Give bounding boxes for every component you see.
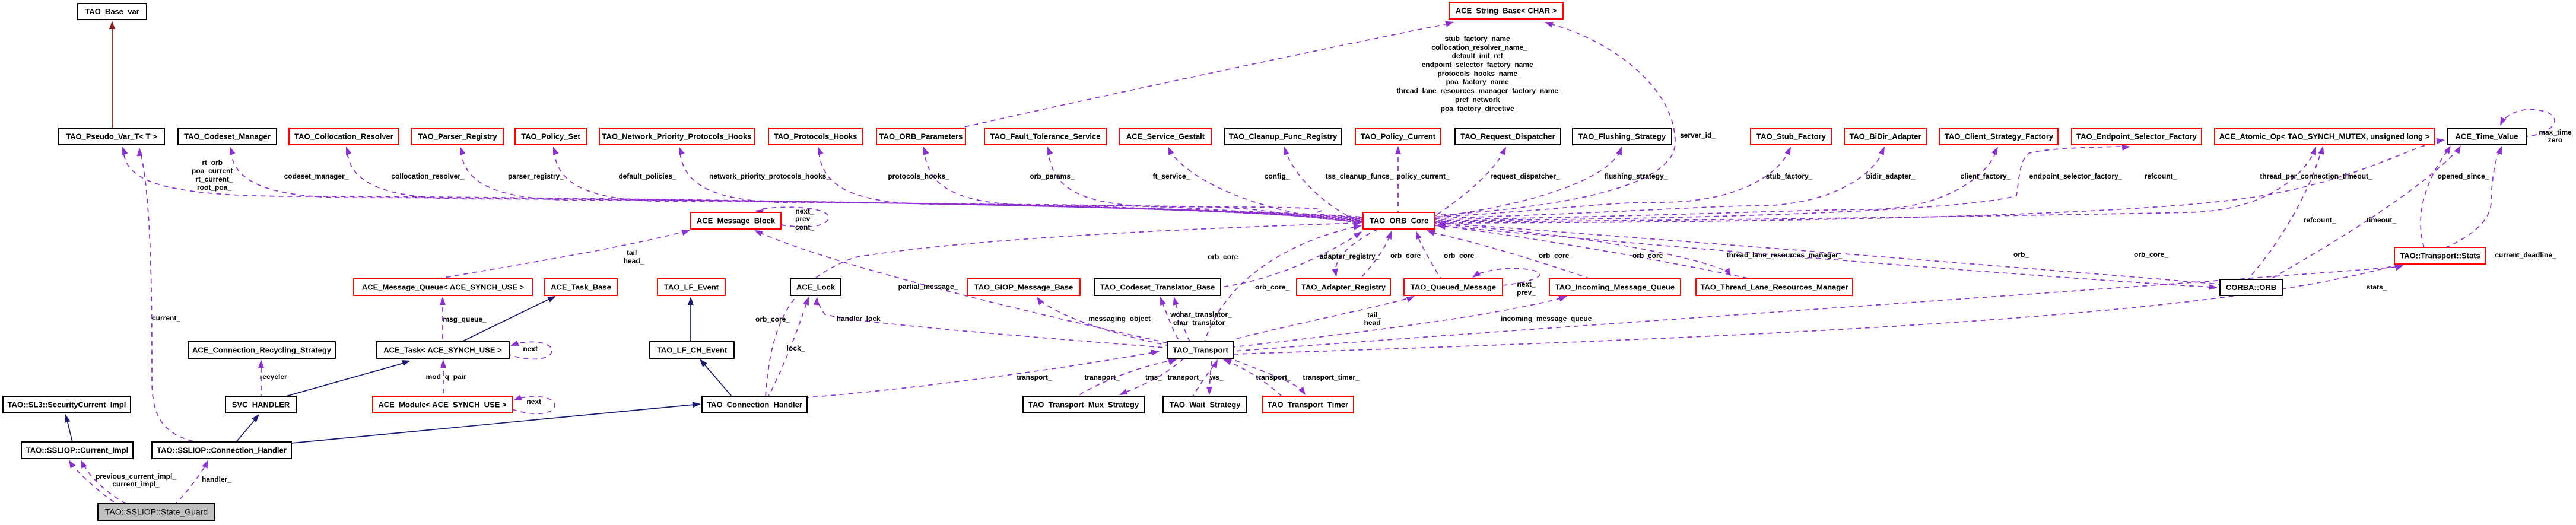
usage TAO_ORB_Core server_id_ to ACE_String_Base [1435,22,1675,215]
svg-text:orb_core_: orb_core_ [1208,253,1242,261]
usage TAO_ORB_Core bidir_adapter_ to TAO_BiDir_Adapter [1435,147,1885,218]
usage TAO_Adapter_Registry orb_core_ to TAO_ORB_Core [1360,231,1392,279]
svg-text:ACE_Task_Base: ACE_Task_Base [551,283,611,292]
usage TAO_ORB_Core client_factory_ to TAO_Client_Strategy_Factory [1435,147,1998,219]
svg-text:TAO_Connection_Handler: TAO_Connection_Handler [707,400,802,409]
svg-text:ACE_Time_Value: ACE_Time_Value [2456,132,2518,141]
svg-text:parser_registry_: parser_registry_ [508,172,564,180]
svg-text:ft_service_: ft_service_ [1153,172,1190,180]
svg-text:thread_lane_resources_manager_: thread_lane_resources_manager_ [1727,251,1843,259]
usage TAO_Transport incoming_message_queue_ to TAO_Incoming_Message_Queue [1234,296,1567,347]
usage TAO_ORB_Core default_policies_ to TAO_Policy_Set [553,147,1363,219]
svg-text:tail_: tail_ [627,249,641,257]
svg-text:protocols_hooks_: protocols_hooks_ [888,172,949,180]
svg-text:orb_core_: orb_core_ [1632,252,1667,260]
usage TAO_ORB_Core rt_orb_ etc to TAO_Pseudo_Var_T [122,147,1363,217]
svg-text:TAO_Policy_Set: TAO_Policy_Set [521,132,580,141]
svg-text:poa_factory_name_: poa_factory_name_ [1446,78,1513,86]
class box TAO_Network_Priority_Protocols_Hooks [599,128,754,145]
inheritance TAO_LF_CH_Event to TAO_LF_Event [688,297,694,342]
usage TAO_ORB_Parameters names to ACE_String_Base [959,21,1454,128]
usage TAO_ORB_Core tss_cleanup_funcs_ to TAO_Cleanup_Func_Registry [1284,147,1363,223]
svg-text:opened_since_: opened_since_ [2438,172,2489,180]
class box ACE_Module ACE_SYNCH_USE [373,396,512,413]
class box TAO_Parser_Registry [412,128,503,145]
svg-text:server_id_: server_id_ [1680,131,1716,139]
usage TAO_ORB_Core thread_per_connection_timeout_ to ACE_Time_Value [1435,138,2445,223]
class box TAO_Policy_Current [1355,128,1441,145]
svg-text:previous_current_impl_: previous_current_impl_ [96,472,176,481]
class box TAO::SL3::SecurityCurrent_Impl [3,396,131,413]
svg-text:TAO_Request_Dispatcher: TAO_Request_Dispatcher [1460,132,1555,141]
usage TAO_ORB_Core orb_ to CORBA::ORB [1435,225,2218,290]
svg-text:msg_queue_: msg_queue_ [443,315,487,323]
svg-text:transport_: transport_ [1256,373,1291,381]
svg-text:ACE_Connection_Recycling_Strat: ACE_Connection_Recycling_Strategy [192,346,332,355]
class box TAO_GIOP_Message_Base [967,279,1080,295]
usage TAO_ORB_Core flushing_strategy_ to TAO_Flushing_Strategy [1435,147,1622,217]
class box TAO_Pseudo_Var_T T [59,128,164,145]
svg-text:TAO_Collocation_Resolver: TAO_Collocation_Resolver [294,132,393,141]
svg-text:TAO_Pseudo_Var_T< T >: TAO_Pseudo_Var_T< T > [66,132,157,141]
svg-text:TAO_ORB_Parameters: TAO_ORB_Parameters [879,132,963,141]
svg-text:TAO_Fault_Tolerance_Service: TAO_Fault_Tolerance_Service [990,132,1101,141]
svg-text:orb_core_: orb_core_ [2134,250,2168,259]
class box TAO::SSLIOP::Connection_Handler [152,442,291,459]
usage TAO_Transport tms_ to TAO_Transport_Mux_Strategy [1119,358,1184,395]
usage TAO_ORB_Core adapter_registry_ to TAO_Adapter_Registry [1332,229,1378,277]
svg-text:TAO_Codeset_Manager: TAO_Codeset_Manager [184,132,271,141]
class box TAO::SSLIOP::State_Guard [98,504,215,520]
class box TAO_Collocation_Resolver [289,128,399,145]
svg-text:tms_: tms_ [1145,373,1162,381]
usage TAO::Transport::Stats opened_since_ to ACE_Time_Value [2421,145,2451,247]
svg-text:poa_factory_directive_: poa_factory_directive_ [1441,104,1519,113]
inheritance TAO::SSLIOP::Connection_Handler to SVC_HANDLER [236,414,259,442]
svg-text:default_policies_: default_policies_ [618,172,676,180]
usage CORBA::ORB refcount_ to ACE_Atomic_Op [2248,146,2324,279]
svg-text:endpoint_selector_factory_name: endpoint_selector_factory_name_ [1422,61,1538,69]
svg-text:TAO_Incoming_Message_Queue: TAO_Incoming_Message_Queue [1555,283,1675,292]
svg-text:config_: config_ [1265,172,1290,180]
svg-text:ACE_Message_Queue< ACE_SYNCH_U: ACE_Message_Queue< ACE_SYNCH_USE > [362,283,525,292]
usage CORBA::ORB orb_core_ to TAO_ORB_Core [1437,220,2220,284]
class box ACE_Message_Block [691,212,781,229]
svg-text:partial_message_: partial_message_ [898,282,958,291]
svg-text:TAO::SSLIOP::State_Guard: TAO::SSLIOP::State_Guard [105,507,208,517]
svg-text:handler_lock_: handler_lock_ [837,314,885,323]
svg-text:next_: next_ [1517,280,1536,288]
svg-text:stub_factory_: stub_factory_ [1766,172,1813,180]
svg-text:ACE_Module< ACE_SYNCH_USE >: ACE_Module< ACE_SYNCH_USE > [378,400,507,409]
svg-text:TAO_Base_var: TAO_Base_var [85,7,139,16]
self loop next_ prev_ on TAO_Queued_Message [1472,268,1540,285]
usage TAO_Transport stats_ to TAO::Transport::Stats [1234,265,2403,351]
svg-text:orb_core_: orb_core_ [755,315,790,323]
usage TAO::SSLIOP::Connection_Handler current_ to TAO_Pseudo_Var_T [137,148,196,442]
svg-text:TAO_Transport: TAO_Transport [1173,346,1228,355]
svg-text:TAO_Cleanup_Func_Registry: TAO_Cleanup_Func_Registry [1229,132,1338,141]
svg-text:transport_timer_: transport_timer_ [1303,373,1360,381]
svg-text:stub_factory_name_: stub_factory_name_ [1445,34,1514,43]
self loop next_ prev_ cont_ on ACE_Message_Block [755,207,828,227]
svg-text:TAO_Stub_Factory: TAO_Stub_Factory [1756,132,1827,141]
usage TAO::SSLIOP::State_Guard previous_current_impl_ to TAO::SSLIOP::Current_Impl [69,460,116,504]
svg-text:tss_cleanup_funcs_: tss_cleanup_funcs_ [1326,172,1394,180]
svg-text:orb_core_: orb_core_ [1539,252,1573,260]
class box TAO_BiDir_Adapter [1844,128,1926,145]
usage TAO_ORB_Core config_ to ACE_Service_Gestalt [1168,147,1363,222]
svg-text:adapter_registry_: adapter_registry_ [1320,252,1380,260]
svg-text:request_dispatcher_: request_dispatcher_ [1490,172,1560,180]
usage TAO_ORB_Core ft_service_ to TAO_Fault_Tolerance_Service [1047,147,1363,222]
class box TAO_Base_var [78,4,147,20]
class box TAO_Transport [1167,342,1234,358]
svg-text:char_translator_: char_translator_ [1173,319,1229,327]
svg-text:ACE_Message_Block: ACE_Message_Block [697,217,776,225]
class box TAO_Codeset_Translator_Base [1094,279,1221,295]
svg-text:TAO_Protocols_Hooks: TAO_Protocols_Hooks [774,132,857,141]
class box TAO_Cleanup_Func_Registry [1225,128,1341,145]
class box TAO_Client_Strategy_Factory [1940,128,2058,145]
usage ACE_Module mod_q_pair_ to ACE_Task [440,359,446,396]
usage TAO_Transport tail_ head_ to TAO_Queued_Message [1234,296,1415,339]
class box TAO_ORB_Core [1363,212,1435,229]
usage TAO_Thread_Lane_Resources_Manager orb_core_ to TAO_ORB_Core [1437,224,1751,279]
svg-text:head_: head_ [624,257,644,265]
svg-text:TAO_Wait_Strategy: TAO_Wait_Strategy [1170,400,1241,409]
class box TAO_LF_Event [658,279,725,295]
svg-text:TAO_Codeset_Translator_Base: TAO_Codeset_Translator_Base [1100,283,1215,292]
usage TAO_Wait_Strategy transport_ to TAO_Transport [1193,359,1218,396]
svg-text:bidir_adapter_: bidir_adapter_ [1866,172,1916,180]
svg-text:TAO_Parser_Registry: TAO_Parser_Registry [418,132,497,141]
class box TAO_Wait_Strategy [1163,396,1247,413]
svg-text:ACE_Service_Gestalt: ACE_Service_Gestalt [1126,132,1205,141]
svg-text:tail_: tail_ [1367,311,1381,319]
svg-text:policy_current_: policy_current_ [1396,172,1450,180]
class box TAO_Policy_Set [515,128,586,145]
svg-text:current_: current_ [152,314,180,322]
svg-text:incoming_message_queue_: incoming_message_queue_ [1501,314,1596,323]
svg-text:thread_lane_resources_manager_: thread_lane_resources_manager_factory_na… [1396,87,1562,95]
svg-text:TAO_Adapter_Registry: TAO_Adapter_Registry [1301,283,1386,292]
svg-text:thread_per_connection_timeout_: thread_per_connection_timeout_ [2260,172,2372,180]
usage TAO_ORB_Core collocation_resolver_ to TAO_Collocation_Resolver [346,147,1363,218]
svg-text:TAO_Network_Priority_Protocols: TAO_Network_Priority_Protocols_Hooks [602,132,752,141]
usage TAO_Transport orb_core_ to TAO_ORB_Core [1205,224,1362,342]
svg-text:client_factory_: client_factory_ [1961,172,2011,180]
svg-text:network_priority_protocols_hoo: network_priority_protocols_hooks_ [709,172,830,180]
svg-text:refcount_: refcount_ [2145,172,2177,180]
class box ACE_Task ACE_SYNCH_USE [376,342,509,358]
usage TAO_Transport_Timer transport_ to TAO_Transport [1223,359,1282,396]
svg-text:next_: next_ [523,345,542,353]
svg-text:orb_core_: orb_core_ [1390,252,1425,260]
self loop max_time zero on ACE_Time_Value [2500,110,2555,136]
class box TAO_Codeset_Manager [178,128,277,145]
class box TAO_Transport_Timer [1262,396,1354,413]
svg-text:prev_: prev_ [795,215,814,223]
svg-text:TAO_Transport_Timer: TAO_Transport_Timer [1268,400,1348,409]
svg-text:flushing_strategy_: flushing_strategy_ [1605,172,1668,180]
svg-text:collocation_resolver_: collocation_resolver_ [391,172,465,180]
class box TAO_Connection_Handler [702,396,807,413]
svg-text:mod_q_pair_: mod_q_pair_ [426,373,471,381]
svg-text:orb_params_: orb_params_ [1030,172,1075,180]
svg-text:TAO::SSLIOP::Current_Impl: TAO::SSLIOP::Current_Impl [26,446,128,455]
svg-text:rt_current_: rt_current_ [195,175,233,183]
svg-text:orb_core_: orb_core_ [1444,252,1478,260]
usage TAO_Connection_Handler orb_core_ to TAO_ORB_Core [766,220,1362,396]
class box ACE_Task_Base [544,279,618,295]
svg-text:collocation_resolver_name_: collocation_resolver_name_ [1431,43,1527,52]
svg-text:next_: next_ [795,207,814,215]
self loop next_ on ACE_Task [509,341,552,359]
svg-text:current_deadline_: current_deadline_ [2495,251,2556,259]
svg-text:current_impl_: current_impl_ [112,480,160,488]
usage TAO_ORB_Core request_dispatcher_ to TAO_Request_Dispatcher [1435,147,1506,216]
class box TAO_Flushing_Strategy [1573,128,1672,145]
svg-text:protocols_hooks_name_: protocols_hooks_name_ [1437,69,1522,78]
usage TAO_Transport wchar_translator_ to TAO_Codeset_Translator_Base [1160,297,1180,342]
inheritance TAO_Pseudo_Var_T to TAO_Base_var [109,21,115,128]
usage TAO_ORB_Core refcount_ to ACE_Atomic_Op [1435,147,2316,222]
usage TAO_ORB_Core stub_factory_ to TAO_Stub_Factory [1435,147,1791,217]
svg-text:TAO_Transport_Mux_Strategy: TAO_Transport_Mux_Strategy [1028,400,1139,409]
svg-text:head_: head_ [1364,319,1385,327]
svg-text:messaging_object_: messaging_object_ [1088,314,1155,323]
class box TAO_Incoming_Message_Queue [1549,279,1681,295]
svg-text:TAO_GIOP_Message_Base: TAO_GIOP_Message_Base [974,283,1073,292]
svg-text:ws_: ws_ [1209,373,1224,381]
svg-text:transport_: transport_ [1017,373,1052,381]
class box TAO_LF_CH_Event [650,342,734,358]
class box ACE_Time_Value [2447,128,2526,145]
svg-text:next_: next_ [526,397,545,406]
class box TAO::Transport::Stats [2394,247,2486,264]
usage TAO_Incoming_Message_Queue orb_core_ to TAO_ORB_Core [1427,230,1590,279]
class box ACE_Lock [790,279,841,295]
usage TAO_Queued_Message orb_core_ to TAO_ORB_Core [1416,231,1441,279]
usage CORBA::ORB timeout_ to ACE_Time_Value [2270,145,2461,279]
usage TAO_Transport current_deadline_ to ACE_Time_Value [1234,146,2502,354]
usage TAO_Transport handler_lock_ to ACE_Lock [814,297,1165,348]
svg-text:default_init_ref_: default_init_ref_ [1452,52,1507,60]
svg-text:TAO_Policy_Current: TAO_Policy_Current [1361,132,1436,141]
svg-text:TAO_BiDir_Adapter: TAO_BiDir_Adapter [1849,132,1921,141]
class box TAO_Fault_Tolerance_Service [984,128,1106,145]
svg-text:TAO_Flushing_Strategy: TAO_Flushing_Strategy [1578,132,1666,141]
usage TAO_Transport char_translator_ to TAO_Codeset_Translator_Base [1173,297,1190,342]
usage TAO_ORB_Core parser_registry_ to TAO_Parser_Registry [460,147,1363,219]
svg-text:TAO::SL3::SecurityCurrent_Impl: TAO::SL3::SecurityCurrent_Impl [8,400,126,409]
self loop next_ on ACE_Module [512,395,555,414]
class box CORBA::ORB [2220,279,2282,295]
usage TAO_ORB_Core protocols_hooks_ to TAO_Protocols_Hooks [818,147,1363,221]
class box TAO_Adapter_Registry [1297,279,1390,295]
class box TAO_Protocols_Hooks [768,128,862,145]
usage ACE_Message_Queue tail_ head_ to ACE_Message_Block [437,230,690,279]
svg-text:cont_: cont_ [795,223,814,231]
svg-text:TAO_Client_Strategy_Factory: TAO_Client_Strategy_Factory [1945,132,2054,141]
usage TAO_Codeset_Translator_Base orb_core_ to TAO_ORB_Core [1221,231,1362,287]
svg-text:prev_: prev_ [1517,288,1536,297]
usage TAO_Transport messaging_object_ to TAO_GIOP_Message_Base [1037,297,1167,345]
svg-text:ACE_Atomic_Op< TAO_SYNCH_MUTEX: ACE_Atomic_Op< TAO_SYNCH_MUTEX, unsigned… [2219,132,2430,141]
svg-text:TAO_LF_CH_Event: TAO_LF_CH_Event [657,346,728,355]
class box TAO_Transport_Mux_Strategy [1023,396,1144,413]
usage TAO_Connection_Handler transport_ to TAO_Transport [807,350,1160,398]
svg-text:orb_core_: orb_core_ [1255,283,1289,291]
usage TAO_ORB_Core orb_params_ to TAO_ORB_Parameters [923,147,1363,221]
svg-text:max_time: max_time [2539,128,2572,136]
inheritance TAO_Connection_Handler to TAO_LF_CH_Event [700,359,732,396]
svg-text:TAO::SSLIOP::Connection_Handle: TAO::SSLIOP::Connection_Handler [157,446,287,455]
inheritance TAO::SSLIOP::Current_Impl to TAO::SL3::SecurityCurrent_Impl [65,414,72,442]
svg-text:TAO_LF_Event: TAO_LF_Event [664,283,719,292]
svg-text:ACE_String_Base< CHAR >: ACE_String_Base< CHAR > [1456,7,1557,15]
usage TAO_ORB_Core thread_lane_resources_manager_ to TAO_Thread_Lane_Resources_Manager [1435,224,1731,276]
svg-text:SVC_HANDLER: SVC_HANDLER [232,400,290,409]
usage TAO::SSLIOP::State_Guard current_impl_ to TAO::SSLIOP::Current_Impl [81,460,126,504]
svg-text:ACE_Task< ACE_SYNCH_USE >: ACE_Task< ACE_SYNCH_USE > [383,346,502,355]
usage ACE_Task msg_queue_ to ACE_Message_Queue [440,297,446,342]
svg-text:TAO::Transport::Stats: TAO::Transport::Stats [2400,252,2480,260]
usage SVC_HANDLER recycler_ to ACE_Connection_Recycling_Strategy [258,359,264,396]
usage TAO_Transport_Mux_Strategy transport_ to TAO_Transport [1077,359,1177,396]
svg-text:codeset_manager_: codeset_manager_ [284,172,349,180]
svg-text:timeout_: timeout_ [2367,216,2396,224]
svg-text:handler_: handler_ [202,475,231,483]
edge labels [284,172,349,180]
svg-text:pref_network_: pref_network_ [1455,96,1504,104]
usage TAO_Connection_Handler lock_ to ACE_Lock [768,297,809,396]
usage TAO_Transport partial_message_ to ACE_Message_Block [754,230,1167,343]
svg-text:root_poa_: root_poa_ [197,183,231,192]
usage TAO_ORB_Core policy_current_ to TAO_Policy_Current [1395,146,1401,212]
svg-text:lock_: lock_ [787,344,805,352]
class box TAO_Stub_Factory [1751,128,1832,145]
usage TAO_ORB_Core codeset_manager_ to TAO_Codeset_Manager [230,147,1363,218]
class box ACE_Service_Gestalt [1120,128,1211,145]
svg-text:CORBA::ORB: CORBA::ORB [2226,283,2276,292]
class box TAO_Thread_Lane_Resources_Manager [1696,279,1853,295]
svg-text:TAO_Endpoint_Selector_Factory: TAO_Endpoint_Selector_Factory [2076,132,2197,141]
svg-text:endpoint_selector_factory_: endpoint_selector_factory_ [2029,172,2123,180]
svg-text:transport_: transport_ [1167,373,1203,381]
svg-text:zero: zero [2548,136,2563,144]
svg-text:refcount_: refcount_ [2304,216,2336,224]
svg-text:TAO_ORB_Core: TAO_ORB_Core [1370,217,1428,225]
svg-text:recycler_: recycler_ [260,373,291,381]
class box ACE_Atomic_Op TAO_SYNCH_MUTEX, unsigned long [2215,128,2434,145]
class box ACE_String_Base CHAR [1449,2,1563,19]
svg-text:stats_: stats_ [2367,283,2387,291]
class box TAO::SSLIOP::Current_Impl [21,442,133,459]
svg-text:orb_: orb_ [2013,250,2029,259]
usage TAO::SSLIOP::State_Guard handler_ to TAO::SSLIOP::Connection_Handler [176,460,208,504]
usage TAO_ORB_Core endpoint_selector_factory_ to TAO_Endpoint_Selector_Factory [1435,145,2130,221]
class box TAO_Request_Dispatcher [1455,128,1561,145]
class box SVC_HANDLER [225,396,296,413]
svg-text:ACE_Lock: ACE_Lock [796,283,836,292]
class box ACE_Message_Queue ACE_SYNCH_USE [354,279,532,295]
svg-text:transport_: transport_ [1084,373,1120,381]
class box TAO_Queued_Message [1404,279,1503,295]
svg-text:rt_orb_: rt_orb_ [202,158,227,167]
svg-text:TAO_Thread_Lane_Resources_Mana: TAO_Thread_Lane_Resources_Manager [1700,283,1848,292]
usage TAO_Transport transport_timer_ to TAO_Transport_Timer [1230,358,1306,395]
usage TAO_ORB_Core network_priority_protocols_hooks_ to TAO_Network_Priority_Protocols_Hooks [679,147,1363,220]
svg-text:wchar_translator_: wchar_translator_ [1170,310,1232,319]
class box TAO_Endpoint_Selector_Factory [2072,128,2202,145]
class box TAO_ORB_Parameters [876,128,965,145]
class box ACE_Connection_Recycling_Strategy [188,342,335,358]
svg-text:TAO_Queued_Message: TAO_Queued_Message [1411,283,1496,292]
usage TAO_Transport ws_ to TAO_Wait_Strategy [1206,358,1212,395]
inheritance TAO::SSLIOP::Connection_Handler to TAO_Connection_Handler [291,402,701,443]
inheritance SVC_HANDLER to ACE_Task [286,360,411,396]
inheritance ACE_Task to ACE_Task_Base [462,296,556,342]
svg-text:poa_current_: poa_current_ [192,167,237,175]
